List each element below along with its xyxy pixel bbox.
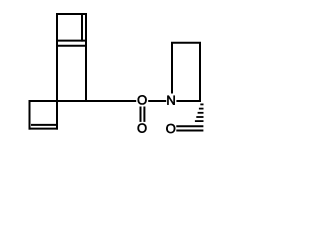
atom label O (lower oxygen of O=O) bbox=[138, 123, 147, 132]
atom label N (azetidine nitrogen) bbox=[167, 96, 174, 105]
double bond second line: inner horizontal of lower ring bottom edge bbox=[31, 124, 56, 126]
wire: left vertical edge of lower cyclobutene ring bbox=[29, 100, 31, 130]
double bond O=O: left line bbox=[140, 107, 142, 122]
double bond second line: inner vertical of upper ring right edge bbox=[81, 15, 83, 42]
wire: azetidine ring top edge bbox=[171, 42, 201, 44]
wire: shared horizontal edge between upper and middle ring bbox=[56, 40, 87, 42]
hashed wedge stereo bond (5 dashes) bbox=[195, 104, 204, 121]
wire: azetidine ring left vertical (bond up from N) bbox=[171, 43, 173, 94]
double bond second line: parallel horizontal below shared edge bbox=[56, 45, 87, 47]
wire: bottom edge of lower cyclobutene ring bbox=[29, 128, 59, 130]
wire: azetidine ring right vertical bbox=[199, 43, 201, 102]
double bond O=O: right line bbox=[143, 107, 145, 122]
wire: O to N bond bbox=[148, 100, 166, 102]
wire: top edge of upper cyclobutene ring bbox=[56, 13, 87, 15]
atom label O (ester oxygen) bbox=[138, 95, 147, 104]
wire: long horizontal main-chain bond to ester O bbox=[29, 100, 137, 102]
wire: long left vertical bond (upper ring, middle ring, spiro to lower ring) bbox=[56, 13, 58, 130]
wire: azetidine ring bottom bond N to stereocenter C bbox=[176, 100, 201, 102]
atom label O (aldehyde oxygen) bbox=[166, 124, 175, 133]
aldehyde C=O double bond: upper line bbox=[176, 125, 203, 127]
aldehyde C=O double bond: lower line bbox=[176, 130, 203, 132]
wire: right vertical bond of upper/middle ring down to main chain bbox=[85, 13, 87, 102]
